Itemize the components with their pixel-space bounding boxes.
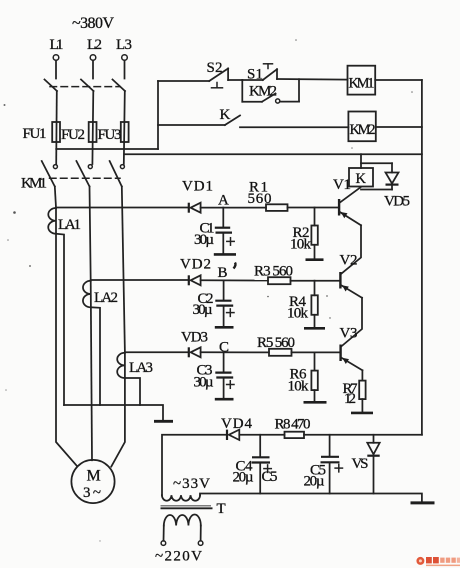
diode VD4: [221, 416, 253, 440]
svg-text:LA3: LA3: [129, 360, 153, 376]
diode VD1: [182, 179, 213, 213]
wire K VD5 top link: [361, 162, 392, 164]
resistor R1: [248, 180, 288, 211]
transformer T secondary 33V: [162, 476, 210, 501]
wire K to KM2 coil: [240, 126, 348, 128]
diode VD2: [180, 257, 211, 286]
diode VD3: [181, 330, 208, 358]
svg-text:~33V: ~33V: [173, 476, 210, 492]
wire LA2 tap: [91, 307, 100, 405]
motor M: [71, 460, 114, 503]
wire VD3 to node C: [201, 351, 269, 353]
wire LA1 tap: [56, 234, 64, 405]
current transformer LA1: [48, 208, 81, 234]
wire control bus lower (from L3): [124, 153, 422, 155]
resistor R2: [290, 208, 318, 259]
wire L1 lead: [55, 61, 57, 79]
svg-text:10k: 10k: [288, 379, 310, 395]
disconnect switch blade phase 2: [81, 80, 94, 92]
svg-text:VD3: VD3: [181, 330, 208, 346]
svg-text:C5: C5: [262, 469, 278, 485]
wire row B from LA2: [91, 279, 188, 281]
wire R8 to right bus: [304, 434, 422, 436]
wire phase L1 to motor: [56, 208, 77, 466]
svg-text:VD4: VD4: [221, 416, 253, 432]
wire phase L3 below KM1: [122, 187, 125, 353]
svg-text:12: 12: [344, 391, 356, 407]
disconnect switch blade phase 3: [113, 80, 126, 92]
wire phase L1 to fuse: [55, 91, 58, 164]
wire VD1 to node A: [201, 207, 266, 209]
svg-text:M: M: [87, 468, 101, 485]
speckle dots: [4, 39, 413, 542]
svg-text:V3: V3: [340, 326, 358, 342]
wire right bus vertical: [421, 80, 423, 435]
wire V2 emitter to V3 collector: [341, 298, 362, 347]
ground R4: [304, 327, 325, 330]
mechanical link dashed: [50, 86, 120, 88]
wire row C from LA3: [125, 351, 188, 353]
contactor coil KM2: [348, 112, 375, 142]
svg-text:30µ: 30µ: [194, 375, 214, 391]
transistor V2: [339, 253, 362, 298]
fuse FU1: [23, 122, 61, 142]
svg-text:KM2: KM2: [249, 84, 277, 100]
wire R3 to V2 base: [291, 280, 340, 282]
ground R6: [304, 401, 327, 404]
svg-text:VD1: VD1: [182, 179, 213, 195]
capacitor C2: [193, 281, 235, 327]
svg-text:K: K: [220, 107, 231, 123]
svg-text:20µ: 20µ: [304, 474, 325, 490]
wire riser to S2 and K rows: [157, 81, 159, 149]
wire LA3 tap: [125, 378, 140, 405]
wire junction to S1: [242, 79, 262, 81]
wire bus to relay K: [360, 154, 362, 168]
wire S2 to junction: [228, 79, 242, 81]
svg-text:VS: VS: [352, 456, 369, 472]
svg-text:L3: L3: [116, 37, 132, 53]
contactor KM1 main contact phase 3: [110, 161, 125, 187]
wire KM2 coil to right bus: [376, 126, 422, 128]
current transformer LA3: [117, 353, 153, 378]
contactor KM1 main contact phase 2: [76, 161, 92, 187]
auxiliary contact KM2: [242, 79, 299, 103]
stray mark: [234, 263, 236, 269]
transformer T core: [161, 506, 213, 509]
svg-text:KM2: KM2: [350, 122, 376, 138]
relay coil K: [349, 168, 373, 187]
ground main: [411, 501, 435, 504]
wire K row: [158, 124, 225, 126]
svg-text:V1: V1: [333, 177, 351, 193]
wire R1 to V1 base: [288, 207, 339, 209]
wire phase L2 to motor: [91, 281, 92, 460]
start button S1: [247, 64, 277, 83]
svg-text:LA2: LA2: [94, 290, 118, 306]
capacitor C4: [233, 435, 272, 494]
current transformer LA2: [83, 281, 118, 308]
svg-text:FU3: FU3: [98, 127, 122, 143]
node L2: [87, 37, 102, 60]
svg-text:3~: 3~: [83, 485, 101, 501]
wire V3 emitter to R7: [361, 370, 363, 380]
wire branch drop: [241, 80, 243, 102]
svg-text:B: B: [218, 265, 228, 281]
resistor R3: [254, 264, 293, 285]
svg-text:~380V: ~380V: [72, 15, 114, 32]
svg-text:10k: 10k: [290, 237, 312, 253]
capacitor C3: [194, 352, 235, 398]
svg-text:L1: L1: [50, 37, 64, 53]
wire tap bus: [64, 405, 163, 420]
thyristor VS: [352, 435, 380, 494]
mechanical link dashed KM1: [50, 177, 121, 179]
wire VD2 to node B: [201, 279, 268, 281]
svg-text:30µ: 30µ: [194, 232, 214, 248]
svg-text:30µ: 30µ: [193, 302, 213, 318]
svg-text:T: T: [217, 501, 226, 517]
wire PSU top bus left: [162, 435, 226, 495]
svg-text:20µ: 20µ: [233, 470, 254, 486]
contactor coil KM1: [348, 66, 376, 95]
stop button S2: [207, 60, 229, 88]
node L1: [50, 37, 64, 60]
svg-text:R8 470: R8 470: [275, 417, 311, 433]
wire PSU bottom bus: [200, 494, 422, 503]
resistor R5: [257, 335, 295, 356]
ground R2: [306, 258, 324, 261]
diode VD5: [384, 163, 410, 209]
fuse FU3: [98, 122, 129, 143]
svg-text:VD5: VD5: [384, 194, 410, 210]
svg-text:LA1: LA1: [58, 217, 81, 233]
fuse FU2: [61, 122, 97, 143]
capacitor C5: [304, 435, 343, 494]
transformer T primary 220V: [161, 515, 203, 546]
svg-text:FU2: FU2: [61, 127, 85, 143]
watermark logo: [416, 557, 460, 566]
svg-text:L2: L2: [87, 37, 102, 53]
svg-text:FU1: FU1: [23, 126, 47, 142]
ground C1: [214, 253, 236, 256]
wire phase L2 below KM1: [90, 187, 91, 282]
wire phase L2 to fuse: [91, 91, 94, 164]
ground C2: [215, 326, 234, 329]
disconnect switch blade phase 1: [45, 80, 58, 92]
capacitor C1: [194, 208, 234, 254]
transistor V3: [339, 326, 362, 371]
wire VD4 to R8: [239, 434, 284, 436]
wire row A from LA1: [56, 207, 188, 209]
svg-text:VD2: VD2: [180, 257, 211, 273]
resistor R7: [343, 381, 366, 412]
wire V1 emitter to V2 collector: [341, 225, 361, 274]
resistor R4: [287, 281, 318, 328]
ground tap bus: [154, 420, 173, 423]
resistor R8: [275, 417, 311, 439]
wire S2 row: [158, 80, 209, 82]
wire VD5 bottom link: [361, 189, 392, 191]
transistor V1: [333, 177, 361, 225]
ground R7: [351, 412, 373, 415]
wire phase L3 to fuse: [124, 91, 125, 164]
svg-text:KM1: KM1: [349, 76, 375, 92]
node L3: [116, 37, 132, 60]
wire L2 lead: [92, 61, 94, 79]
wire L3 lead: [124, 61, 126, 79]
wire control bus tap L1: [56, 148, 158, 150]
svg-text:~220V: ~220V: [155, 549, 202, 565]
svg-text:V2: V2: [340, 253, 358, 269]
svg-text:10k: 10k: [287, 306, 309, 322]
wire phase L3 to motor: [111, 353, 125, 467]
relay contact K: [220, 107, 241, 125]
svg-text:KM1: KM1: [21, 176, 47, 192]
svg-text:A: A: [218, 193, 229, 209]
wire S1 output to KM1 coil: [277, 78, 348, 81]
wire phase L1 below KM1: [55, 187, 56, 208]
wire KM1 coil to right bus: [375, 79, 422, 81]
svg-text:K: K: [356, 171, 367, 187]
resistor R6: [288, 352, 318, 401]
wire R5 to V3 base: [292, 351, 340, 353]
contactor KM1 main contact phase 1: [42, 161, 58, 187]
ground C3: [215, 398, 234, 401]
